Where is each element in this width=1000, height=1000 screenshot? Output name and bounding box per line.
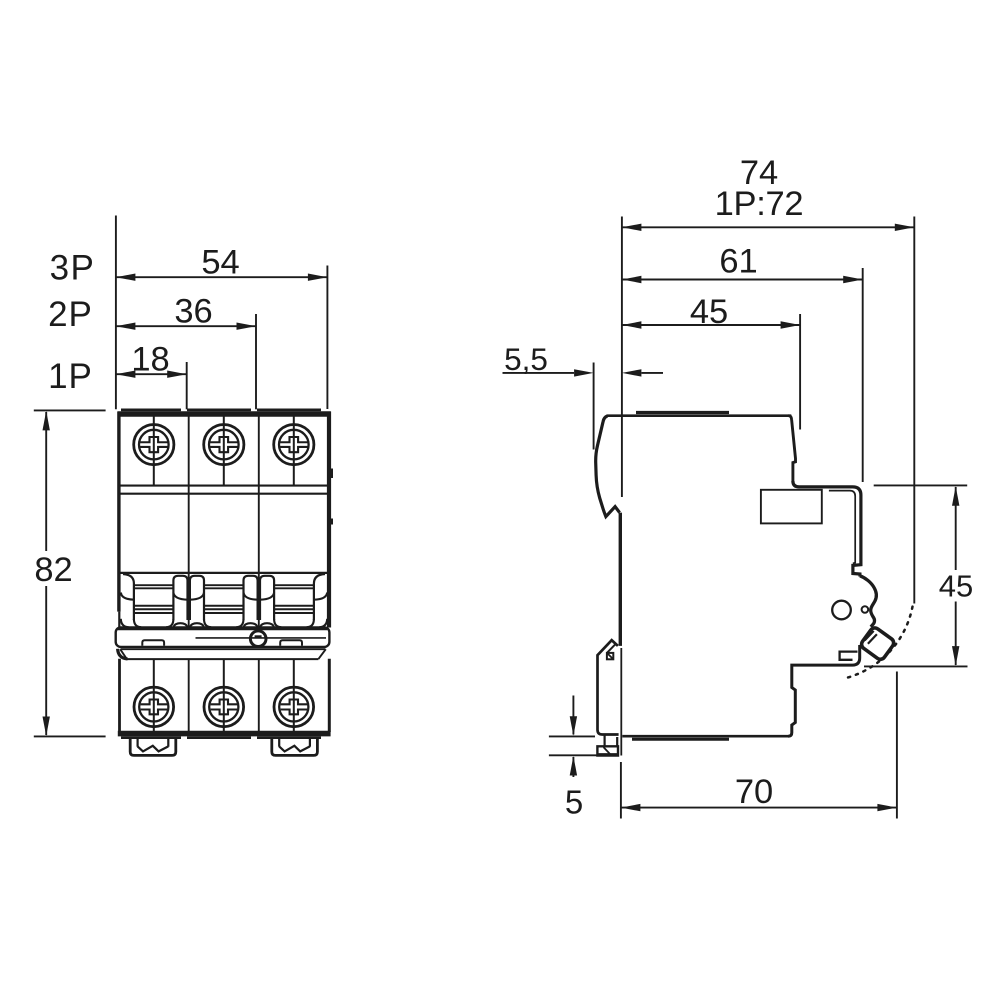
svg-text:61: 61 <box>719 243 757 281</box>
svg-text:1P: 1P <box>48 357 93 396</box>
dimension 45 vertical right <box>864 485 973 666</box>
bottom terminal screw 3 <box>274 687 314 727</box>
pole divider line 2 <box>258 415 260 627</box>
dimension 5,5 <box>503 341 664 377</box>
toggle window ribs <box>135 585 314 613</box>
svg-text:45: 45 <box>939 569 973 604</box>
tie bar rivet circle <box>250 631 266 647</box>
svg-text:54: 54 <box>201 244 239 282</box>
bottom terminal screw 3 center line <box>293 660 295 732</box>
toggle handle group at divider 1 <box>166 576 211 627</box>
latch small pin circle <box>862 606 869 613</box>
din latch lever <box>860 626 896 661</box>
pole divider line 1 <box>188 415 190 627</box>
latch swing dotted arc <box>844 607 913 679</box>
dimension 70 <box>621 672 897 819</box>
pole divider line 2 lower <box>258 659 260 732</box>
dimension 18 <box>116 341 187 379</box>
extension line 45 right <box>799 314 801 430</box>
din latch lever grip lines <box>865 631 877 644</box>
bottom terminal screw 2 <box>204 687 244 727</box>
latch recess step <box>840 652 858 660</box>
svg-text:1P:72: 1P:72 <box>715 185 804 223</box>
svg-text:5: 5 <box>565 784 583 821</box>
front view body bottom edge <box>118 734 331 738</box>
top terminal screw 3 <box>274 425 314 465</box>
dimension 82 <box>34 410 106 736</box>
dimension 61 <box>622 243 863 284</box>
toggle handle group at divider 2 <box>236 576 281 627</box>
side view overhang inner line <box>829 491 855 564</box>
side view bottom edge <box>622 736 789 739</box>
din rail tab left <box>130 737 176 756</box>
svg-text:36: 36 <box>174 293 212 331</box>
side view right edge upper <box>789 416 796 483</box>
extension line 18 right <box>186 362 188 409</box>
dimension 74 / 1P:72 <box>622 154 914 231</box>
side view bottom right outline <box>788 645 860 736</box>
svg-text:3P: 3P <box>50 249 96 288</box>
bottom terminal screw 1 center line <box>153 660 155 732</box>
tie bar slot left <box>142 640 164 645</box>
svg-text:70: 70 <box>735 773 773 811</box>
dimension 54 <box>116 244 328 282</box>
svg-text:5,5: 5,5 <box>504 341 548 377</box>
upper separator line 1 <box>121 485 328 487</box>
extension line 61 right <box>862 268 864 482</box>
svg-text:18: 18 <box>131 341 169 379</box>
latch pocket profile <box>860 576 876 627</box>
side view front edge <box>620 513 621 756</box>
bottom terminal screw 1 <box>134 687 174 727</box>
toggle handle right edge arch <box>307 574 328 627</box>
upper separator line 2 <box>121 493 328 495</box>
front view body top edge <box>118 410 331 414</box>
dimension 36 <box>116 293 256 331</box>
tie bar slot right <box>280 640 302 645</box>
toggle handle left edge arch <box>121 574 141 627</box>
top terminal screw 1 center line <box>153 415 155 485</box>
top terminal screw 2 center line <box>223 415 225 485</box>
toggle area top line <box>120 572 328 574</box>
toggle tie bar <box>116 627 330 647</box>
top terminal screw 3 center line <box>293 415 295 485</box>
top terminal screw 1 <box>134 425 174 465</box>
svg-text:45: 45 <box>690 293 728 331</box>
side view front cover curve <box>596 416 620 517</box>
top terminal screw 2 <box>204 425 244 465</box>
svg-text:82: 82 <box>34 551 72 589</box>
side label window rectangle <box>761 490 822 524</box>
latch pivot circle <box>832 601 851 620</box>
extension line 74 right <box>913 217 915 604</box>
extension line left of front view <box>115 216 117 410</box>
front view body left edge <box>117 412 121 733</box>
dimension 5 <box>549 696 618 821</box>
svg-text:2P: 2P <box>48 295 93 334</box>
bottom terminal screw 2 center line <box>223 660 225 732</box>
tie bar lower lip <box>118 649 326 659</box>
extension line side front face <box>621 217 623 498</box>
pole divider line 1 lower <box>188 659 190 732</box>
side view top edge <box>607 413 792 416</box>
din rail tab right <box>272 737 318 756</box>
extension line 5.5 left <box>593 363 595 450</box>
dimension 45 horizontal <box>622 293 800 331</box>
extension line 36 right <box>255 314 257 409</box>
side view top overhang <box>793 481 861 577</box>
extension line 54 right <box>326 266 328 410</box>
front view body right edge <box>329 412 333 733</box>
side din rail clip <box>597 640 618 755</box>
